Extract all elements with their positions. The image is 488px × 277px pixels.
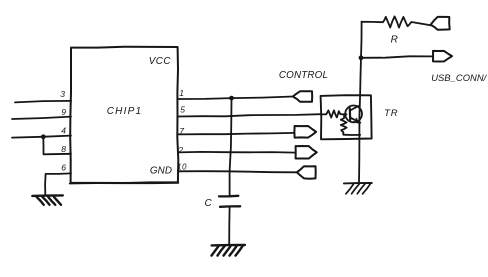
label R — [391, 34, 399, 45]
pin label 4 — [61, 126, 67, 136]
pin label 8 — [61, 144, 67, 154]
pin label 6 — [61, 163, 67, 173]
svg-text:2: 2 — [177, 145, 184, 155]
connector pin 10 — [297, 166, 316, 179]
transistor TR base bar — [349, 108, 352, 120]
transistor box TR — [321, 95, 372, 139]
base resistor inside TR box — [321, 110, 347, 117]
wire pin 5 — [178, 114, 321, 116]
connector pin 7 — [294, 126, 316, 138]
wire pin 8 — [43, 137, 71, 155]
label C — [204, 198, 212, 209]
wire USB node to connector — [361, 56, 433, 58]
pulldown resistor inside TR box — [341, 115, 347, 135]
transistor TR circle — [345, 106, 362, 123]
svg-text:CHIP1: CHIP1 — [107, 106, 142, 117]
chip pin label VCC — [149, 56, 172, 67]
connector pin 2 — [296, 146, 317, 159]
capacitor C plates — [219, 196, 240, 207]
wire capacitor to ground — [228, 207, 230, 245]
connector CONTROL (pin 1) — [293, 91, 312, 102]
svg-text:6: 6 — [61, 163, 67, 173]
pin label 3 — [60, 89, 66, 99]
wire pin 9 — [12, 117, 71, 119]
junction dot on pin 4 wire — [41, 134, 46, 139]
wire pin 3 — [15, 101, 71, 103]
svg-text:1: 1 — [179, 88, 185, 98]
svg-text:3: 3 — [60, 89, 66, 99]
connector USB_CONN — [433, 51, 452, 62]
wire pin 6 — [45, 173, 71, 195]
pin label 1 — [179, 88, 185, 98]
wire pin 7 — [178, 133, 295, 135]
wire pulldown to emitter rail — [343, 134, 360, 136]
ground under capacitor — [212, 245, 245, 256]
wire pin 4 — [12, 136, 71, 138]
pin label 7 — [179, 126, 185, 136]
label USB_CONN/ — [431, 72, 487, 83]
svg-text:9: 9 — [61, 107, 67, 117]
connector after R — [431, 17, 450, 30]
label CONTROL — [279, 70, 328, 81]
junction dot pin1/cap — [229, 96, 234, 101]
ground under pin 6 — [32, 195, 63, 204]
pin label 2 — [177, 145, 184, 155]
label TR — [384, 108, 398, 119]
svg-text:10: 10 — [177, 162, 187, 171]
transistor TR emitter — [350, 117, 360, 122]
svg-text:8: 8 — [61, 144, 67, 154]
pin label 9 — [61, 107, 67, 117]
resistor R — [362, 16, 431, 27]
svg-text:4: 4 — [61, 126, 67, 136]
ground under transistor — [344, 183, 372, 194]
svg-text:R: R — [391, 34, 399, 45]
svg-text:USB_CONN/: USB_CONN/ — [431, 72, 487, 83]
wire pin 2 — [178, 151, 296, 154]
wire VCC vertical (collector rail) — [359, 22, 362, 183]
chip label CHIP1 — [107, 106, 142, 117]
svg-text:C: C — [204, 198, 212, 209]
svg-text:VCC: VCC — [149, 56, 172, 67]
transistor TR collector — [350, 105, 360, 110]
svg-text:CONTROL: CONTROL — [279, 70, 328, 81]
chip pin label GND — [150, 166, 172, 177]
wire pin 1 — [178, 97, 293, 100]
pin label 10 — [177, 162, 187, 171]
svg-text:5: 5 — [180, 105, 186, 115]
wire pin 10 — [178, 171, 297, 172]
svg-text:GND: GND — [150, 166, 172, 177]
wire junction to capacitor — [230, 98, 232, 195]
pin label 5 — [180, 105, 186, 115]
junction dot USB node — [359, 55, 364, 60]
chip CHIP1 body — [70, 47, 179, 184]
svg-text:TR: TR — [384, 108, 398, 119]
